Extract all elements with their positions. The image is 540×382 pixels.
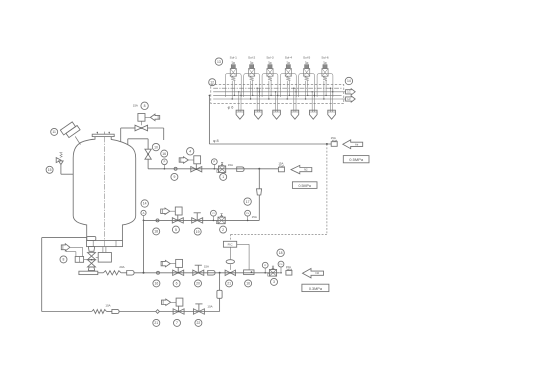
label circle 13: [215, 58, 222, 65]
hose coupling (row A): [127, 271, 134, 276]
svg-text:N2: N2: [316, 271, 320, 275]
svg-text:0.5MPa: 0.5MPa: [349, 157, 364, 162]
N2 pressure box 0.5MPa (upper): [292, 182, 317, 189]
junction node (riser from row C): [143, 272, 145, 274]
svg-text:20A: 20A: [119, 265, 124, 269]
svg-text:21: 21: [227, 282, 231, 286]
instrument signal line (dashed, air to FIC): [326, 144, 328, 234]
svg-text:φ 8: φ 8: [213, 139, 219, 143]
control valve 8 body: [135, 125, 148, 131]
label circle 9: [171, 173, 178, 180]
label circle 16 (on N2 line): [161, 150, 168, 157]
svg-text:6: 6: [176, 282, 178, 286]
control valve 7: [162, 299, 171, 305]
spray nozzle 3: [273, 110, 281, 119]
control valve 8 actuator: [138, 114, 145, 122]
sight glass (row A): [157, 271, 160, 274]
valve Sol-5 mounting bracket: [299, 74, 315, 97]
label circle 20: [195, 280, 202, 287]
manual valve 22: [193, 309, 204, 314]
purge line row C: [144, 219, 260, 221]
discharge outlet tee: [79, 271, 98, 274]
label circle 6: [173, 280, 180, 287]
pressure regulator 3: [269, 270, 276, 277]
valve 8 inlet pipe (to vessel): [121, 127, 135, 129]
label circle 18 (row A): [277, 249, 284, 256]
hose coupling (N2 line): [237, 167, 244, 172]
vessel shell: [73, 137, 136, 241]
manifold outlet arrow 1/2 (upper): [346, 89, 356, 95]
svg-text:9: 9: [173, 175, 175, 179]
pressure gauge PI (row A): [264, 268, 266, 273]
air supply fitting 15A: [331, 142, 337, 147]
svg-text:15A: 15A: [228, 163, 233, 167]
svg-text:Sol-1: Sol-1: [230, 56, 238, 60]
nozzle pipe 4: [293, 88, 295, 110]
svg-text:18: 18: [279, 251, 283, 255]
air header pipe (phi-8): [208, 95, 210, 144]
label circle 22: [195, 319, 202, 326]
air inlet arrow: [343, 140, 363, 149]
label circle 10: [152, 143, 159, 150]
svg-text:A: A: [143, 211, 145, 215]
label circle 11 (agitator): [51, 128, 58, 135]
nozzle pipe 5: [311, 92, 313, 110]
vessel manhole flange: [92, 134, 114, 136]
label circle 14 (row C): [141, 200, 148, 207]
svg-text:21: 21: [154, 321, 158, 325]
svg-text:10: 10: [154, 145, 158, 149]
flex hose (row A): [103, 271, 121, 275]
manifold bus line 1 (dash-dot): [213, 87, 341, 89]
svg-text:φ 6: φ 6: [228, 105, 234, 109]
manual valve 20: [193, 270, 204, 275]
label circle 5: [172, 226, 179, 233]
control valve 4: [179, 157, 188, 163]
valve 10 (vertical): [145, 149, 151, 159]
spray nozzle 2: [254, 110, 262, 119]
valve Sol-4 mounting bracket: [280, 74, 296, 97]
hose coupling 2 (row A): [208, 271, 215, 276]
label circle 15 (relief valve): [46, 166, 53, 173]
spray nozzle 4: [291, 110, 299, 119]
valve Sol-6 mounting bracket: [317, 74, 333, 97]
label circle 3: [271, 278, 278, 285]
svg-text:14: 14: [143, 202, 147, 206]
pressure regulator 1: [219, 166, 226, 173]
svg-text:15A: 15A: [286, 265, 291, 269]
svg-text:Sol-5: Sol-5: [303, 56, 311, 60]
svg-text:Sol-6: Sol-6: [321, 56, 329, 60]
label circle 17: [244, 198, 251, 205]
manifold outlet arrow 1/2 (lower): [346, 96, 356, 102]
svg-text:10A: 10A: [207, 305, 212, 309]
air pressure box 0.5MPa: [343, 156, 369, 163]
pressure gauge PI (row C): [212, 216, 214, 220]
safety relief valve: [56, 158, 61, 163]
svg-text:19: 19: [196, 230, 200, 234]
svg-text:15A: 15A: [252, 215, 257, 219]
air line junction node: [326, 143, 328, 145]
svg-text:0.3MPa: 0.3MPa: [309, 287, 323, 291]
svg-text:N2: N2: [304, 168, 308, 172]
svg-text:10A: 10A: [105, 303, 110, 307]
svg-text:Sol-2: Sol-2: [248, 56, 256, 60]
label circle 7: [174, 319, 181, 326]
pressure switch PS (row A): [280, 267, 282, 273]
svg-text:16: 16: [246, 282, 250, 286]
nozzle pipe 1: [238, 92, 240, 110]
valve 8 outlet pipe (vent): [148, 127, 164, 129]
svg-text:4: 4: [189, 150, 191, 154]
valve Sol-2 supply pipes: [250, 81, 252, 99]
analysis point circle A: [141, 210, 146, 215]
svg-text:8: 8: [63, 258, 65, 262]
discharge expander: [88, 267, 94, 271]
label circle 16 (row A): [153, 280, 160, 287]
agitator motor: [60, 121, 80, 139]
svg-text:5: 5: [175, 228, 177, 232]
discharge valve (double seat): [88, 253, 96, 260]
spray nozzle 5: [309, 110, 317, 119]
valve Sol-1 supply pipes: [231, 81, 233, 99]
junction node (riser to row B): [219, 272, 221, 274]
svg-text:13: 13: [217, 60, 221, 64]
discharge pilot solenoid: [75, 257, 83, 263]
FIC controller box: [223, 241, 236, 247]
label circle 4 (control valve): [187, 148, 194, 155]
label circle 1: [220, 173, 227, 180]
N2 charge line: [148, 168, 278, 170]
svg-text:0.5MPa: 0.5MPa: [299, 184, 311, 188]
flow sensor (row A): [244, 270, 254, 275]
manual valve 19: [192, 218, 203, 223]
N2 inlet arrow (upper): [291, 165, 312, 173]
label circle 12: [209, 79, 216, 86]
manifold bus line 3: [213, 94, 341, 96]
svg-text:3: 3: [273, 280, 275, 284]
valve Sol-2 mounting bracket: [244, 74, 260, 97]
vessel vapor nozzle pipe: [127, 139, 129, 145]
N2 inlet arrow (lower): [303, 269, 324, 278]
pilot air flag: [61, 244, 70, 251]
svg-text:7: 7: [176, 321, 178, 325]
vessel bottom head band: [87, 241, 123, 247]
flex hose (row B): [92, 310, 107, 314]
discharge reducer: [88, 247, 94, 252]
valve Sol-1 mounting bracket: [225, 74, 241, 97]
check fitting diamond (row B): [156, 310, 160, 314]
label circle 19: [194, 228, 201, 235]
pressure gauge P (N2 line right): [213, 165, 215, 169]
discharge valve actuator: [98, 253, 111, 263]
riser from row C to row A: [143, 220, 145, 272]
svg-text:15A: 15A: [133, 104, 138, 108]
svg-text:12: 12: [210, 80, 214, 84]
valve Sol-4 supply pipes: [286, 81, 288, 99]
pressure switch PS (row C): [247, 216, 249, 220]
svg-text:16: 16: [155, 282, 159, 286]
recirculation loop pipe (left): [42, 237, 87, 239]
svg-text:Sol-3: Sol-3: [266, 56, 274, 60]
valve Sol-3 supply pipes: [268, 81, 270, 99]
svg-text:2: 2: [222, 228, 224, 232]
flow control valve 21 (diaphragm): [226, 260, 234, 264]
label circle 21: [226, 280, 233, 287]
svg-text:15A: 15A: [204, 264, 209, 268]
N2 pressure box 0.3MPa: [302, 284, 329, 291]
sight glass circle 9: [174, 167, 177, 170]
control valve 5: [161, 208, 170, 214]
flush line row B: [42, 311, 92, 313]
manifold bus line 2: [213, 91, 341, 93]
pressure gauge P (N2 line left): [163, 165, 165, 169]
label circle 8 (discharge pilot): [60, 256, 67, 263]
svg-text:Sol-4: Sol-4: [285, 56, 293, 60]
agitator shaft: [75, 136, 80, 144]
svg-text:22: 22: [197, 321, 201, 325]
riser coupling: [217, 290, 222, 298]
N2 supply fitting (row A): [286, 271, 292, 276]
vessel recirculation nozzle flange: [87, 237, 96, 241]
label circle 14 (manifold outlet): [345, 77, 352, 84]
relief valve line: [61, 173, 73, 175]
product line row A: [98, 272, 104, 274]
pipe from valve 10 down to N2 line: [147, 159, 149, 169]
svg-text:11: 11: [52, 130, 56, 134]
valve Sol-6 supply pipes: [323, 81, 325, 99]
control valve 6: [161, 260, 170, 266]
svg-text:14: 14: [347, 79, 351, 83]
svg-text:15: 15: [48, 168, 52, 172]
hose coupling (row B): [112, 309, 119, 313]
svg-text:15A: 15A: [331, 136, 336, 140]
spray nozzle 1: [236, 110, 244, 119]
svg-text:FIC: FIC: [228, 243, 234, 247]
label circle 16 (flow sensor): [245, 280, 252, 287]
svg-text:18: 18: [154, 230, 158, 234]
vessel centerline: [103, 137, 105, 246]
FIC to control valve stem: [229, 247, 231, 260]
valve Sol-5 supply pipes: [305, 81, 307, 99]
nozzle pipe 3: [274, 92, 276, 110]
label circle 2: [220, 226, 227, 233]
svg-text:Air: Air: [355, 142, 358, 146]
FIC sensing line: [237, 243, 249, 245]
manifold bus line 4: [213, 98, 341, 100]
valve Sol-3 mounting bracket: [262, 74, 278, 97]
N2 supply fitting 15A: [278, 167, 284, 172]
label circle 18 (row C): [153, 228, 160, 235]
sight glass (row C): [156, 219, 159, 222]
label circle 21 (row B): [153, 319, 160, 326]
svg-text:8: 8: [144, 104, 146, 108]
solenoid manifold enclosure (dashed): [211, 85, 344, 104]
svg-text:1: 1: [222, 175, 224, 179]
svg-text:15A: 15A: [278, 162, 283, 166]
svg-text:20: 20: [196, 282, 200, 286]
spray nozzle 6: [328, 110, 336, 119]
svg-text:16: 16: [162, 152, 166, 156]
label circle 8 (top valve): [141, 102, 148, 109]
svg-text:17: 17: [246, 200, 250, 204]
riser row B to row A: [219, 298, 221, 311]
riser row C to N2 line with filter: [258, 195, 260, 220]
pressure regulator 2: [218, 217, 225, 224]
filter funnel: [257, 189, 262, 195]
nozzle pipe 6: [330, 88, 332, 110]
valve 8 air feed flag: [145, 116, 150, 118]
nozzle pipe 2: [256, 88, 258, 110]
